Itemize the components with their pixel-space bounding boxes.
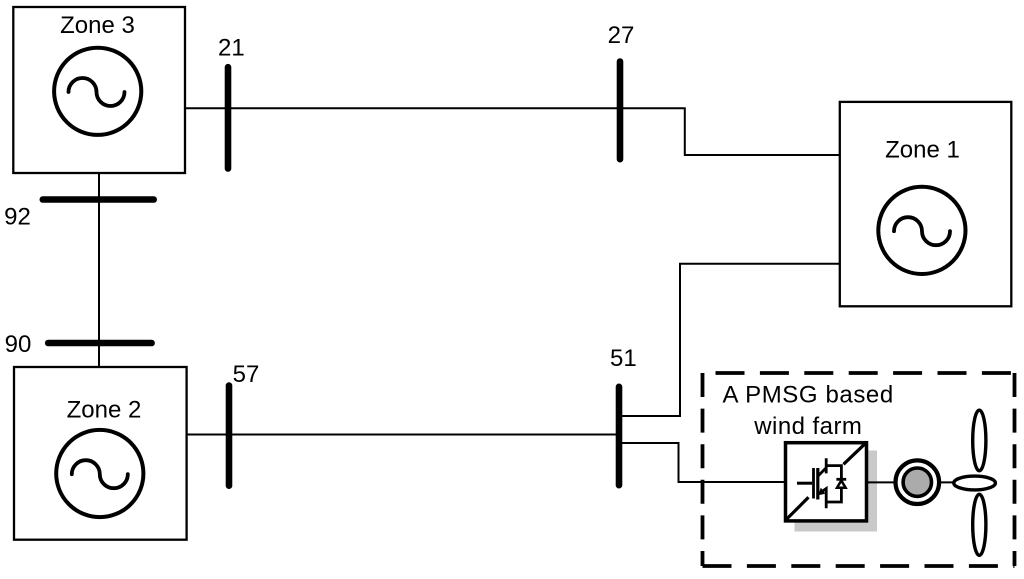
generator G1 circle bbox=[878, 187, 965, 274]
wire zone3 to zone1 via buses 21 and 27 bbox=[185, 108, 840, 155]
zone 3 box bbox=[13, 7, 185, 173]
diode D1 cathode bar bbox=[836, 478, 846, 481]
IGBT Q1 top rail bbox=[826, 466, 841, 479]
svg-text:90: 90 bbox=[5, 331, 32, 358]
svg-text:wind farm: wind farm bbox=[753, 413, 862, 440]
svg-text:51: 51 bbox=[610, 345, 637, 372]
generator G2 circle bbox=[56, 430, 143, 517]
converter U1 shadow bbox=[795, 451, 878, 532]
wire converter to PMSG generator bbox=[868, 481, 896, 483]
bus 92 bbox=[43, 196, 154, 203]
svg-text:92: 92 bbox=[4, 204, 31, 231]
zone 1 box bbox=[840, 102, 1012, 306]
wire zone2 to bus 51 via bus 57 bbox=[187, 434, 619, 436]
generator G2 sine bbox=[72, 460, 128, 488]
wind farm dashed enclosure bottom edge bbox=[703, 564, 1015, 568]
wire zone3 to zone2 via buses 92 and 90 bbox=[98, 173, 100, 367]
IGBT Q1 gate lead bbox=[797, 482, 812, 485]
generator G3 sine bbox=[69, 78, 125, 106]
diode D1 triangle bbox=[837, 481, 846, 488]
svg-text:Zone 3: Zone 3 bbox=[60, 12, 135, 39]
wind farm dashed enclosure top edge bbox=[716, 371, 1015, 375]
svg-text:27: 27 bbox=[608, 22, 635, 49]
converter diagonal upper-right bbox=[844, 443, 867, 465]
svg-text:21: 21 bbox=[218, 34, 245, 61]
svg-text:57: 57 bbox=[233, 361, 260, 388]
IGBT Q1 body bar bbox=[816, 468, 819, 500]
svg-text:A PMSG based: A PMSG based bbox=[723, 382, 894, 409]
zone 2 box bbox=[14, 367, 187, 540]
wind turbine bottom blade bbox=[973, 494, 986, 555]
IGBT Q1 emitter arrow bbox=[818, 488, 825, 496]
bus 27 bbox=[617, 62, 624, 160]
generator G1 sine bbox=[894, 217, 950, 245]
svg-text:Zone 2: Zone 2 bbox=[67, 396, 142, 423]
bus 51 bbox=[616, 387, 623, 485]
PMSG generator outer circle bbox=[896, 460, 940, 504]
IGBT Q1 emitter branch bbox=[818, 489, 826, 509]
IGBT Q1 collector branch bbox=[818, 458, 826, 476]
bus 90 bbox=[48, 340, 151, 347]
wire bus 51 to wind farm converter bbox=[619, 443, 784, 482]
IGBT Q1 gate bar bbox=[812, 468, 815, 499]
bus 21 bbox=[225, 67, 232, 168]
bus 57 bbox=[226, 386, 233, 486]
generator G3 circle bbox=[54, 48, 141, 135]
converter diagonal lower-left bbox=[787, 497, 809, 519]
wind turbine top blade bbox=[973, 410, 986, 471]
PMSG generator inner circle bbox=[903, 468, 931, 496]
IGBT Q1 bottom rail bbox=[826, 488, 841, 502]
converter U1 box bbox=[786, 443, 867, 521]
wind farm dashed enclosure right edge bbox=[1013, 373, 1017, 566]
wire zone1 to bus 51 bbox=[619, 264, 840, 416]
wire PMSG generator to turbine hub bbox=[939, 481, 958, 483]
wind turbine hub bbox=[954, 476, 996, 490]
wind farm dashed enclosure left edge bbox=[701, 373, 705, 566]
svg-text:Zone 1: Zone 1 bbox=[885, 137, 960, 164]
